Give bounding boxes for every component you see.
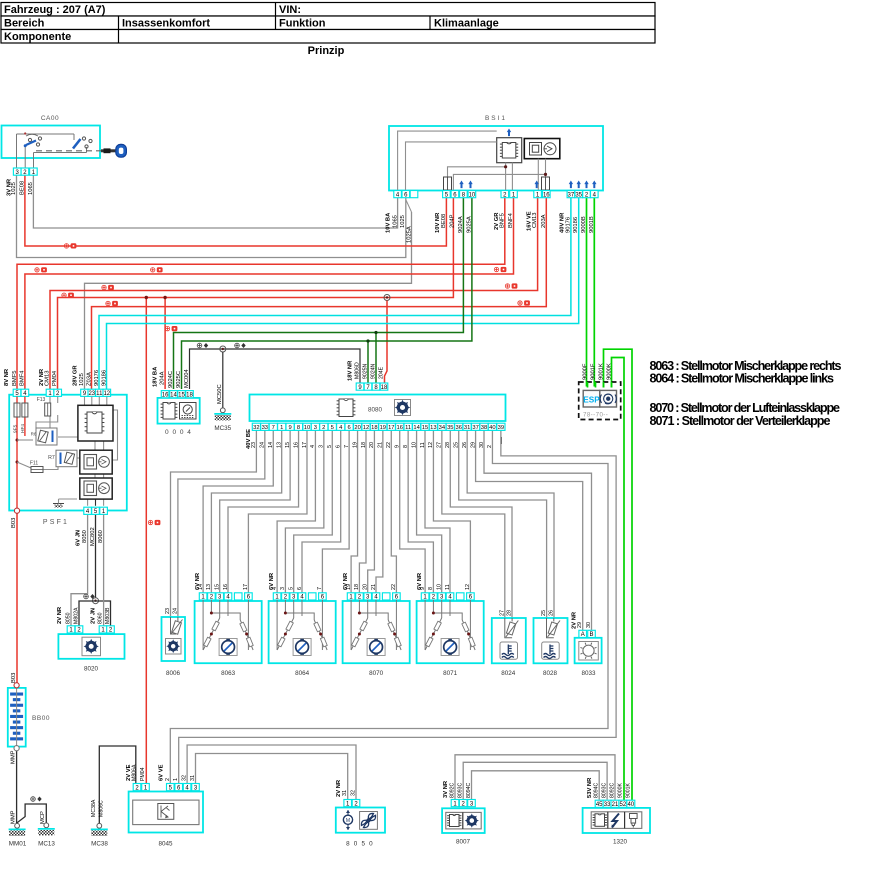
8024 internal thermistor bbox=[505, 618, 519, 638]
wire 8080 pin 31 to x554 bbox=[467, 430, 554, 618]
component 8033 sunshine sensor box bbox=[575, 638, 602, 664]
svg-text:40: 40 bbox=[627, 802, 634, 808]
PSF1 internal wires bbox=[16, 397, 18, 404]
wire 204 PSF1 pin2 to BSI1 pin6b bbox=[58, 198, 454, 389]
8020 pin 1 bbox=[67, 626, 75, 633]
svg-text:19: 19 bbox=[346, 584, 352, 590]
8080 pin 6 bbox=[345, 423, 353, 430]
svg-text:8064 : Stellmotor Mischerklapp: 8064 : Stellmotor Mischerklappe links bbox=[650, 372, 835, 386]
wire 8080 pin 19 to x376 bbox=[376, 430, 383, 592]
0004 pin 14 bbox=[170, 391, 178, 398]
svg-text:14: 14 bbox=[413, 425, 420, 431]
svg-text:15: 15 bbox=[178, 393, 185, 399]
wire 8080 pin 3 to x277.1 bbox=[277, 430, 315, 592]
BSI1 pin 37 bbox=[567, 191, 575, 198]
svg-text:7: 7 bbox=[344, 445, 350, 448]
component 8045 blower control box bbox=[129, 792, 203, 833]
svg-text:40: 40 bbox=[489, 425, 495, 431]
wire 8080 pin 7 to x203.1 bbox=[203, 430, 273, 592]
wire MMP BB00 to MM01 ground bbox=[16, 751, 18, 823]
BSI1 IC arrow bbox=[507, 129, 511, 137]
8063 internal potentiometer mechanism bbox=[203, 600, 253, 650]
wire 1 8080 pin 39 to 8045 pin6 long route bbox=[179, 430, 616, 783]
svg-text:8092C: 8092C bbox=[450, 782, 456, 798]
svg-text:9F5: 9F5 bbox=[13, 424, 19, 433]
wire label 1025A diagonal bbox=[406, 200, 412, 212]
svg-text:MC802: MC802 bbox=[90, 527, 96, 546]
BB00 terminal bottom bbox=[14, 746, 19, 751]
svg-text:2: 2 bbox=[165, 778, 171, 781]
ground MC13 bbox=[44, 823, 49, 828]
ESP wire stubs bbox=[587, 382, 589, 388]
component 8007 interior sensor box bbox=[442, 808, 485, 833]
wire 1025 CA00 pin3 to BSI1 pin6 bbox=[17, 176, 406, 258]
svg-text:BMF4: BMF4 bbox=[20, 370, 26, 386]
svg-text:8050: 8050 bbox=[82, 530, 88, 543]
wire 8080 pin 20 to x351.1 bbox=[351, 430, 357, 592]
svg-text:5: 5 bbox=[327, 445, 333, 448]
wire 8080 pin 13 to x470.4 bbox=[433, 430, 470, 592]
BB00 terminal top bbox=[14, 683, 19, 688]
CA00 pin 3 bbox=[13, 168, 21, 175]
8080 pin 34 bbox=[438, 423, 446, 430]
8028 internal thermistor bbox=[547, 618, 561, 638]
svg-text:13: 13 bbox=[206, 584, 212, 590]
component 8063 flap actuator box bbox=[195, 601, 262, 663]
component CA00 ignition switch box bbox=[2, 126, 101, 159]
8045 pin 1 bbox=[142, 784, 150, 791]
svg-text:M806A: M806A bbox=[132, 764, 138, 781]
wire 8080 pin 35 to x512 bbox=[450, 430, 512, 618]
PSF1 bottom pin 1 bbox=[100, 507, 108, 514]
wire 8080 pin 1 to x211.4 bbox=[211, 430, 281, 592]
svg-text:20: 20 bbox=[363, 584, 369, 590]
svg-text:6V VE: 6V VE bbox=[159, 764, 165, 781]
wire 8080 pin 33 to x177.9 bbox=[178, 430, 265, 617]
component 8006 evaporator temperature sensor box bbox=[162, 617, 186, 661]
ground MC38 bbox=[97, 823, 102, 828]
svg-text:8006: 8006 bbox=[166, 670, 181, 677]
svg-text:11: 11 bbox=[420, 442, 426, 448]
svg-text:VIN:: VIN: bbox=[279, 4, 301, 16]
8007 pin 2 bbox=[459, 800, 467, 807]
svg-text:MC38A: MC38A bbox=[91, 799, 97, 817]
8007 pin 1 bbox=[451, 800, 459, 807]
svg-text:21: 21 bbox=[612, 802, 619, 808]
svg-text:MC38: MC38 bbox=[91, 841, 108, 848]
8080 pin 13 bbox=[429, 423, 437, 430]
PSF1 output stage Q1 bbox=[80, 450, 112, 474]
component 8028 temperature sensor box bbox=[534, 618, 568, 663]
BSI1 pin 4 bbox=[394, 191, 402, 198]
8080 top pin 9 bbox=[356, 383, 364, 390]
8080 pin 5 bbox=[328, 423, 336, 430]
PSF1 internal ECU bbox=[78, 405, 113, 441]
ground wire MC50C bbox=[220, 346, 226, 352]
svg-text:90176: 90176 bbox=[94, 370, 100, 386]
wire CM13 PSF1 pin1 to BSI1 pin1c bbox=[50, 198, 538, 389]
svg-text:9: 9 bbox=[288, 425, 291, 431]
svg-text:7: 7 bbox=[272, 425, 275, 431]
svg-text:53V NR: 53V NR bbox=[587, 777, 593, 798]
svg-text:16: 16 bbox=[293, 442, 299, 448]
svg-text:8094C: 8094C bbox=[466, 782, 472, 798]
fuse icon on CM13 b bbox=[505, 284, 517, 288]
svg-text:10: 10 bbox=[469, 192, 476, 198]
svg-text:BNF5: BNF5 bbox=[499, 213, 505, 228]
svg-text:9000K: 9000K bbox=[617, 782, 623, 798]
svg-text:ESP: ESP bbox=[583, 396, 600, 405]
8007 pin 3 bbox=[468, 800, 476, 807]
8050 motor symbol bbox=[343, 810, 352, 830]
component 8020 recirculation flap actuator box bbox=[58, 634, 124, 659]
svg-text:29: 29 bbox=[577, 622, 583, 628]
8080 pin 4 bbox=[337, 423, 345, 430]
svg-text:BNF4: BNF4 bbox=[508, 212, 514, 228]
svg-text:14: 14 bbox=[198, 584, 204, 590]
svg-text:1: 1 bbox=[173, 778, 179, 781]
8080 pin 1 bbox=[278, 423, 286, 430]
svg-text:90186: 90186 bbox=[573, 217, 579, 233]
svg-text:R7: R7 bbox=[48, 455, 55, 461]
svg-text:B03: B03 bbox=[11, 673, 17, 683]
svg-text:PM04: PM04 bbox=[140, 767, 146, 781]
8064 internal potentiometer mechanism bbox=[277, 600, 327, 650]
8080 pin 11 bbox=[404, 423, 412, 430]
8080 IC symbol bbox=[337, 399, 356, 417]
PSF1 pin 5 bbox=[13, 389, 21, 396]
8080 pin 32 bbox=[252, 423, 260, 430]
8050 pin 1 bbox=[344, 800, 352, 807]
splice icon near MC13 bbox=[31, 797, 42, 802]
8080 pin 8 bbox=[294, 423, 302, 430]
svg-text:B: B bbox=[589, 632, 593, 638]
PSF1 B03 exit node bbox=[14, 508, 19, 513]
svg-text:30: 30 bbox=[479, 442, 485, 448]
svg-text:BMF5: BMF5 bbox=[12, 371, 18, 386]
wire 32 8045 pin4 to 8050 pin2 bbox=[187, 745, 356, 800]
ground MM01 bbox=[15, 823, 20, 828]
svg-text:1025: 1025 bbox=[79, 373, 85, 386]
8080 pin 9 bbox=[286, 423, 294, 430]
wire 9001K ESP to 1320 pin40 bbox=[604, 349, 633, 800]
PSF1 internal ground mark bbox=[53, 503, 64, 505]
svg-text:24: 24 bbox=[172, 608, 178, 614]
svg-text:1065: 1065 bbox=[28, 182, 34, 195]
splice icon pair after MC50C bbox=[235, 343, 246, 348]
8070 pins bbox=[347, 593, 355, 600]
svg-text:MMP: MMP bbox=[11, 750, 17, 764]
svg-text:MM01: MM01 bbox=[9, 841, 27, 848]
svg-text:9000F: 9000F bbox=[582, 363, 588, 380]
svg-text:16: 16 bbox=[223, 584, 229, 590]
BSI1 internal driver box bbox=[524, 139, 560, 159]
wire 90186 PSF1 pin12 to BSI1 pin35 bbox=[107, 198, 579, 389]
svg-text:18V BA: 18V BA bbox=[153, 366, 159, 387]
svg-text:Klimaanlage: Klimaanlage bbox=[434, 18, 499, 30]
8033 pin A bbox=[579, 630, 587, 637]
svg-text:10V BA: 10V BA bbox=[386, 212, 392, 233]
PSF1 pin 11 bbox=[96, 389, 104, 396]
svg-text:12: 12 bbox=[103, 391, 110, 397]
8080 pin 37 bbox=[472, 423, 480, 430]
wire 8080 pin 36 to x546.6 bbox=[459, 430, 547, 618]
wire 8020 loop bbox=[79, 601, 111, 626]
svg-text:26: 26 bbox=[462, 442, 468, 448]
svg-text:21: 21 bbox=[371, 584, 377, 590]
component 8070 flap actuator box bbox=[343, 601, 410, 663]
1320 pin 52 bbox=[619, 800, 627, 807]
BSI1 pin 1 bbox=[510, 191, 518, 198]
component 8050 blower motor box bbox=[336, 808, 385, 833]
svg-text:Komponente: Komponente bbox=[4, 31, 71, 43]
svg-text:8060: 8060 bbox=[98, 612, 104, 624]
svg-text:8007: 8007 bbox=[456, 839, 471, 846]
component 8024 temperature sensor box bbox=[492, 618, 526, 663]
svg-text:26: 26 bbox=[548, 610, 554, 616]
component 8080 air conditioning ECU box bbox=[250, 395, 506, 422]
8080 top pin 7 bbox=[364, 383, 372, 390]
PSF1 fuse F4 bbox=[22, 403, 28, 417]
svg-text:13: 13 bbox=[430, 425, 436, 431]
8080 pin 20 bbox=[354, 423, 362, 430]
wire 8080 pin 16 to x425.1 bbox=[400, 430, 425, 592]
svg-text:37: 37 bbox=[568, 192, 575, 198]
0004 IC symbol bbox=[161, 403, 178, 420]
wire 204E branch to 8080 pin18 bbox=[384, 295, 390, 301]
svg-text:9025N: 9025N bbox=[363, 363, 369, 379]
svg-text:Fahrzeug : 207 (A7): Fahrzeug : 207 (A7) bbox=[4, 4, 106, 16]
BSI1 internal IC U1 bbox=[497, 138, 522, 163]
wire MC004 0004 pin18 to 8080 pin9 with MC50C ground tap bbox=[190, 349, 361, 389]
svg-text:1025: 1025 bbox=[11, 182, 17, 195]
wire 1065 CA00 pin1 to BSI1 pin4 bbox=[33, 176, 397, 229]
svg-text:2: 2 bbox=[487, 445, 493, 448]
svg-text:15: 15 bbox=[422, 425, 428, 431]
fuse icon on Z03A bbox=[106, 301, 118, 305]
svg-text:23: 23 bbox=[88, 391, 95, 397]
wire 8092C 8007 pin1 to 1320 pin21 bbox=[455, 755, 615, 800]
8064 motor symbol bbox=[293, 639, 311, 656]
svg-text:1: 1 bbox=[280, 425, 283, 431]
svg-text:32: 32 bbox=[182, 775, 188, 781]
svg-text:9001K: 9001K bbox=[598, 363, 604, 380]
svg-text:BB00: BB00 bbox=[32, 715, 50, 722]
svg-text:CA00: CA00 bbox=[41, 115, 59, 122]
PSF1 pin 1 bbox=[46, 389, 54, 396]
BSI1 spare pin bbox=[410, 191, 418, 198]
PSF1 relay R6 bbox=[36, 428, 57, 445]
svg-text:8092C: 8092C bbox=[610, 782, 616, 798]
8024 coolant temperature icon bbox=[500, 642, 518, 659]
wire branch to MC13 bbox=[17, 804, 47, 823]
8020 pin 1b bbox=[99, 626, 107, 633]
svg-text:MC004: MC004 bbox=[184, 369, 190, 388]
PSF1 pin 9 bbox=[81, 389, 89, 396]
wire 8080 pin 10 to x248.4 bbox=[248, 430, 307, 592]
svg-text:203A: 203A bbox=[541, 214, 547, 228]
svg-text:18: 18 bbox=[381, 385, 388, 391]
svg-text:17: 17 bbox=[243, 584, 249, 590]
svg-text:B03: B03 bbox=[11, 518, 17, 528]
8080 pin 36 bbox=[455, 423, 463, 430]
8080 pin 12 bbox=[362, 423, 370, 430]
svg-text:3: 3 bbox=[319, 445, 325, 448]
CA00 key symbol bbox=[101, 144, 126, 157]
8080 pin 39 bbox=[497, 423, 505, 430]
svg-text:1320: 1320 bbox=[613, 839, 628, 846]
ground MC35 bbox=[220, 408, 225, 413]
svg-text:10: 10 bbox=[437, 584, 443, 590]
8071 internal potentiometer mechanism bbox=[425, 600, 475, 650]
fuse icon on 203A bbox=[518, 301, 530, 305]
8080 top pin 8 bbox=[372, 383, 380, 390]
PSF1 pin 12 bbox=[103, 389, 111, 396]
svg-text:33: 33 bbox=[262, 425, 268, 431]
8071 pins bbox=[421, 593, 429, 600]
svg-text:0 0 0 4: 0 0 0 4 bbox=[165, 429, 192, 436]
svg-text:6V JN: 6V JN bbox=[76, 530, 82, 546]
svg-text:90186: 90186 bbox=[101, 370, 107, 386]
wire 8094C 8007 pin3 to 1320 pin45 bbox=[472, 771, 600, 800]
8033 pin B bbox=[588, 630, 596, 637]
wire BE08 CA00 pin2 to BSI1 pin5 bbox=[25, 176, 447, 247]
svg-text:7: 7 bbox=[317, 587, 323, 590]
svg-text:MCP: MCP bbox=[40, 811, 46, 824]
svg-text:9025C: 9025C bbox=[176, 371, 182, 388]
svg-text:6: 6 bbox=[336, 445, 342, 448]
svg-text:3: 3 bbox=[314, 425, 317, 431]
wire 9000B BSI1 pin2b to ESP 9000F bbox=[586, 198, 588, 387]
wire 9001B BSI1 pin4b to ESP 9001F bbox=[593, 198, 595, 387]
svg-text:6: 6 bbox=[347, 425, 350, 431]
BSI1 pin 2b bbox=[583, 191, 591, 198]
svg-text:BE08: BE08 bbox=[19, 181, 25, 195]
svg-text:2: 2 bbox=[322, 425, 325, 431]
svg-text:31: 31 bbox=[464, 425, 470, 431]
svg-text:CM13: CM13 bbox=[45, 371, 51, 386]
PSF1 pin 23 bbox=[88, 389, 96, 396]
svg-text:38: 38 bbox=[481, 425, 487, 431]
svg-text:PM04: PM04 bbox=[52, 370, 58, 386]
svg-text:8080: 8080 bbox=[368, 407, 383, 414]
PSF1 fuse F13 bbox=[45, 403, 51, 416]
BSI1 pin 6b bbox=[451, 191, 459, 198]
PSF1 relay R7 bbox=[56, 450, 77, 467]
8020 pin 2 bbox=[75, 626, 83, 633]
wire 9000K ESP to 1320 pin52 bbox=[612, 358, 625, 801]
component 8071 flap actuator box bbox=[417, 601, 484, 663]
svg-text:8094C: 8094C bbox=[594, 782, 600, 798]
wire 8080 pin 32 to x170.5 bbox=[171, 430, 257, 617]
svg-text:2V JN: 2V JN bbox=[91, 608, 97, 624]
svg-text:M: M bbox=[346, 818, 350, 824]
svg-text:8024: 8024 bbox=[501, 670, 516, 677]
svg-text:204E: 204E bbox=[379, 366, 385, 379]
wire 1025A BSI1 to PSF1 pin9 bbox=[85, 212, 412, 389]
8045 pin 2 bbox=[133, 784, 141, 791]
svg-text:8 0 5 0: 8 0 5 0 bbox=[346, 841, 374, 848]
svg-text:8050: 8050 bbox=[66, 612, 72, 624]
svg-text:CM13: CM13 bbox=[532, 213, 538, 228]
svg-text:11: 11 bbox=[405, 425, 411, 431]
BSI1 pin 16 bbox=[543, 191, 551, 198]
svg-text:27: 27 bbox=[437, 442, 443, 448]
1320 lightning icon bbox=[612, 814, 619, 828]
svg-text:M803B: M803B bbox=[105, 607, 111, 624]
svg-text:8070: 8070 bbox=[369, 670, 384, 677]
fuse icon on 204 net bbox=[62, 293, 74, 297]
svg-text:8: 8 bbox=[428, 587, 434, 590]
8045 pin 6 bbox=[175, 784, 183, 791]
wire 8080 pin 37 to x582.7 bbox=[476, 430, 583, 630]
wire MC802 PSF1 pin5 to 8020 splice bbox=[95, 515, 97, 599]
svg-text:78--70--: 78--70-- bbox=[583, 412, 608, 419]
wire 8080 pin 6 to x322.4 bbox=[322, 430, 349, 592]
svg-text:9024N: 9024N bbox=[371, 363, 377, 379]
wire 204A branch to 0004 pin16 bbox=[164, 298, 166, 390]
svg-text:18: 18 bbox=[354, 584, 360, 590]
8080 top pin 18 bbox=[380, 383, 388, 390]
svg-text:F13: F13 bbox=[37, 397, 46, 403]
svg-text:18: 18 bbox=[361, 442, 367, 448]
fuse icon on CM13 bbox=[102, 285, 114, 289]
8080 pin 38 bbox=[480, 423, 488, 430]
wire 8080 pin 14 to x441.7 bbox=[417, 430, 442, 592]
BSI1 pin 1c bbox=[534, 191, 542, 198]
legend text block bbox=[650, 359, 842, 428]
svg-text:Insassenkomfort: Insassenkomfort bbox=[122, 18, 210, 30]
8045 pin 5 bbox=[167, 784, 175, 791]
svg-text:8: 8 bbox=[403, 445, 409, 448]
svg-text:18V NR: 18V NR bbox=[348, 360, 354, 381]
PSF1 fuse F11 bbox=[31, 467, 43, 473]
svg-text:20: 20 bbox=[369, 442, 375, 448]
wire 8080 pin 4 to x302 bbox=[302, 430, 341, 592]
svg-text:MC13: MC13 bbox=[38, 841, 55, 848]
8045 pin 4 bbox=[183, 784, 191, 791]
svg-text:8045: 8045 bbox=[158, 841, 173, 848]
8080 pin 40 bbox=[488, 423, 496, 430]
svg-text:18: 18 bbox=[186, 393, 193, 399]
svg-text:90176: 90176 bbox=[565, 217, 571, 233]
8064 pins bbox=[273, 593, 281, 600]
component BSI1 body control unit box bbox=[389, 126, 603, 191]
BSI1 internal fuse F1 bbox=[444, 177, 452, 190]
wire BMF5-BNF5 PSF1 pin5 to BSI1 pin2 bbox=[17, 198, 505, 389]
8045 pin 3 bbox=[192, 784, 200, 791]
PSF1 pin 2 bbox=[54, 389, 62, 396]
svg-text:25: 25 bbox=[454, 442, 460, 448]
wire PM04 branch to 8045 pin1 bbox=[145, 298, 147, 784]
svg-text:1025A: 1025A bbox=[406, 226, 412, 243]
wire 8080 pin 8 to x228 bbox=[228, 430, 299, 592]
svg-text:A: A bbox=[581, 632, 585, 638]
svg-text:23: 23 bbox=[165, 608, 171, 614]
svg-text:21: 21 bbox=[378, 442, 384, 448]
svg-text:Funktion: Funktion bbox=[279, 18, 326, 30]
svg-text:204P: 204P bbox=[449, 214, 455, 228]
8020 pin 2b bbox=[107, 626, 115, 633]
svg-text:8064: 8064 bbox=[295, 670, 310, 677]
wire 8050 PSF1 pin4 to 8020 pin1 bbox=[71, 515, 88, 626]
8063 motor symbol bbox=[219, 639, 237, 656]
splice icon pair before MC50C bbox=[197, 343, 208, 348]
wire 90176 PSF1 pin11 to BSI1 pin37 bbox=[99, 198, 571, 389]
8080 pin 2 bbox=[320, 423, 328, 430]
component PSF1 engine fuse box bbox=[9, 395, 127, 511]
1320 pin 40 bbox=[627, 800, 635, 807]
